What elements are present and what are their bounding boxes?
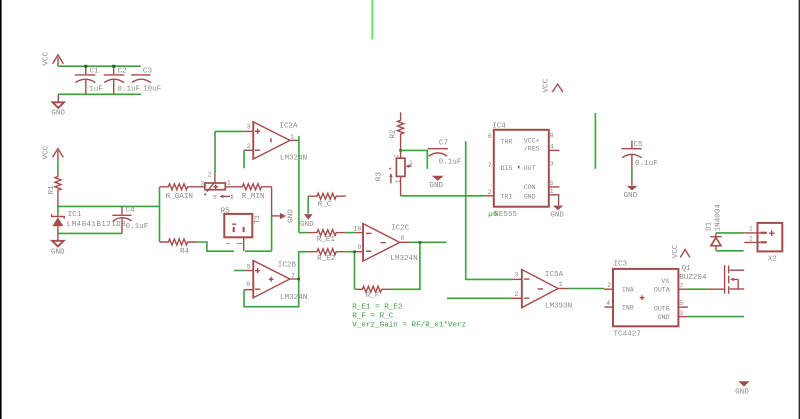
svg-text:TC4427: TC4427 <box>614 331 641 339</box>
svg-text:GND: GND <box>288 209 296 223</box>
driver IC3 TC4427 <box>604 260 688 338</box>
potentiometer R_MIN trimmer <box>200 171 232 200</box>
svg-text:1: 1 <box>290 134 294 141</box>
svg-text:2: 2 <box>514 291 518 298</box>
svg-text:Q1: Q1 <box>682 265 692 273</box>
junction dot C1 <box>84 65 87 68</box>
ground GND under R_C <box>300 214 314 229</box>
svg-text:8: 8 <box>550 133 554 140</box>
svg-text:2: 2 <box>607 282 611 289</box>
svg-text:1: 1 <box>395 179 402 183</box>
svg-text:R_F = R_C: R_F = R_C <box>352 312 393 320</box>
op-amp IC2A <box>247 122 307 163</box>
junction dot IC2B output <box>298 278 301 281</box>
svg-text:R_E2: R_E2 <box>317 255 336 263</box>
svg-text:GND: GND <box>524 194 536 201</box>
svg-text:T1: T1 <box>254 214 262 224</box>
resistor R_E2 <box>308 249 363 263</box>
svg-text:3: 3 <box>200 180 204 187</box>
wire IC2A minus stub <box>244 150 253 168</box>
svg-text:INA: INA <box>622 287 634 294</box>
ground GND 555 pin1 <box>550 195 564 220</box>
wire VCC rail top <box>58 65 141 67</box>
svg-text:LM324N: LM324N <box>280 154 307 162</box>
svg-text:IC5A: IC5A <box>545 271 564 279</box>
VCC supply symbol top-left <box>43 51 64 66</box>
wire R_MIN down <box>271 187 273 216</box>
svg-text:C7: C7 <box>439 139 448 147</box>
resistor R_E1 <box>299 230 363 244</box>
svg-text:VCC: VCC <box>543 78 551 92</box>
frame right border <box>798 0 800 419</box>
svg-text:C3: C3 <box>143 68 153 76</box>
svg-text:7: 7 <box>679 283 683 290</box>
svg-text:GND: GND <box>624 192 638 200</box>
svg-text:LM4041B12IDB: LM4041B12IDB <box>67 221 127 229</box>
svg-text:9: 9 <box>358 244 362 251</box>
svg-text:C1: C1 <box>90 68 100 76</box>
wire reference node horizontal <box>58 205 160 207</box>
diode D1 1N4004 <box>706 204 723 251</box>
VCC supply symbol reference branch <box>43 145 64 160</box>
ground GND under C7 <box>429 176 443 190</box>
svg-text:IC1: IC1 <box>68 211 82 219</box>
svg-text:1: 1 <box>550 188 554 195</box>
resistor R4 <box>160 239 197 256</box>
svg-text:VCC+: VCC+ <box>524 137 540 144</box>
junction dot R_F top <box>419 241 422 244</box>
svg-text:R_GAIN: R_GAIN <box>166 193 193 201</box>
ground GND under C5 <box>624 186 638 200</box>
wire highlighted vertical top <box>371 0 373 39</box>
svg-text:6: 6 <box>488 133 492 140</box>
sensor box R5 <box>221 207 262 244</box>
svg-text:DIS: DIS <box>501 165 513 172</box>
ground GND bottom right <box>735 381 750 396</box>
svg-text:INB: INB <box>622 304 634 311</box>
svg-text:2: 2 <box>749 235 753 242</box>
svg-text:LM393N: LM393N <box>545 303 572 311</box>
svg-text:GND: GND <box>429 182 443 190</box>
ground GND reference <box>51 233 65 256</box>
svg-text:IC2C: IC2C <box>391 224 410 232</box>
svg-text:LM324N: LM324N <box>280 294 307 302</box>
svg-text:IC2B: IC2B <box>278 261 297 269</box>
svg-text:R_MIN: R_MIN <box>242 193 265 201</box>
svg-text:/RES: /RES <box>524 146 540 153</box>
potentiometer R3 trimmer <box>376 150 413 195</box>
svg-text:3: 3 <box>679 310 683 317</box>
svg-text:C2: C2 <box>118 68 128 76</box>
svg-text:IC3: IC3 <box>614 260 628 268</box>
svg-text:5: 5 <box>679 300 683 307</box>
svg-text:6: 6 <box>246 281 250 288</box>
transistor Q1 BUZ204 mosfet <box>679 265 744 294</box>
wire ground rail top <box>58 93 141 95</box>
wire IC2B output <box>290 278 299 280</box>
resistor R_MIN <box>225 184 271 201</box>
svg-text:R_C: R_C <box>318 201 332 209</box>
wire below diode <box>716 250 744 252</box>
svg-text:1: 1 <box>227 180 231 187</box>
frame left border <box>0 0 2 419</box>
connector X2 <box>744 223 782 263</box>
svg-text:OUTA: OUTA <box>654 287 670 294</box>
capacitor C2 <box>104 66 141 94</box>
svg-text:R4: R4 <box>180 248 190 256</box>
svg-text:0.1uF: 0.1uF <box>635 160 658 168</box>
wire stub right of R2 <box>401 150 428 169</box>
svg-text:IC4: IC4 <box>492 122 506 130</box>
svg-text:GND: GND <box>550 211 564 219</box>
wire into zener <box>57 206 59 215</box>
svg-text:GND: GND <box>300 221 314 229</box>
svg-text:D1: D1 <box>706 221 714 231</box>
wire IC2B minus feedback loop <box>244 252 308 307</box>
svg-text:2: 2 <box>247 143 251 150</box>
wire driver gate output <box>688 288 707 290</box>
svg-text:X2: X2 <box>768 255 778 263</box>
wire comparator minus input <box>447 297 512 299</box>
wire R_C to ground <box>307 196 309 214</box>
svg-text:C4: C4 <box>126 206 136 214</box>
svg-text:R_E1: R_E1 <box>317 236 336 244</box>
comparator IC5A <box>512 269 572 310</box>
svg-text:7: 7 <box>488 162 492 169</box>
svg-text:1: 1 <box>749 226 753 233</box>
svg-text:4: 4 <box>550 143 554 150</box>
capacitor C4 <box>112 206 148 233</box>
wire stub vertical right of 555 <box>594 113 596 169</box>
svg-text:GND: GND <box>735 389 749 397</box>
svg-text:3: 3 <box>550 161 554 168</box>
svg-text:C5: C5 <box>633 141 643 149</box>
svg-text:OUT: OUT <box>524 165 536 172</box>
svg-text:4: 4 <box>606 300 610 307</box>
capacitor C1 <box>75 66 103 94</box>
svg-text:5: 5 <box>550 180 554 187</box>
svg-text:CON: CON <box>524 184 536 191</box>
wire diode to connector <box>716 232 744 234</box>
svg-text:3: 3 <box>247 124 251 131</box>
VCC supply symbol near Q1 <box>672 244 690 258</box>
svg-text:8: 8 <box>400 235 404 242</box>
resistor R2 <box>390 112 404 150</box>
svg-text:1: 1 <box>559 281 563 288</box>
svg-text:LM324N: LM324N <box>390 255 417 263</box>
svg-text:V_erz_Gain = RF/R_e1*Verz: V_erz_Gain = RF/R_e1*Verz <box>352 321 466 329</box>
svg-text:2: 2 <box>409 160 413 167</box>
capacitor C5 <box>621 141 658 186</box>
svg-text:BUZ204: BUZ204 <box>679 274 707 282</box>
svg-text:1N4004: 1N4004 <box>715 204 723 232</box>
svg-text:2: 2 <box>208 171 212 178</box>
svg-text:10uF: 10uF <box>143 86 162 94</box>
wire R4 to sensor node <box>197 242 234 251</box>
svg-text:OUTB: OUTB <box>654 306 670 313</box>
svg-text:VS: VS <box>661 278 669 285</box>
svg-text:IC2A: IC2A <box>279 123 298 131</box>
junction dot C2 <box>112 65 115 68</box>
wire vertical divider branch <box>159 187 161 242</box>
op-amp IC2B <box>246 260 307 302</box>
wire IC2A output down <box>290 136 299 233</box>
wire sensor stub <box>243 237 245 251</box>
capacitor C7 control <box>428 139 462 166</box>
zener diode IC1 LM4041 <box>52 211 127 233</box>
wire long vertical to comparator <box>466 141 512 279</box>
VCC supply symbol above 555 <box>543 78 563 92</box>
svg-text:0.1uF: 0.1uF <box>439 159 462 167</box>
svg-text:R_F: R_F <box>366 292 380 300</box>
resistor R1 <box>48 174 61 207</box>
wire IC2B plus stub <box>234 270 253 272</box>
svg-text:GND: GND <box>51 109 65 117</box>
svg-text:1uF: 1uF <box>89 86 103 94</box>
svg-text:s: s <box>213 194 217 201</box>
svg-text:GND: GND <box>658 314 670 321</box>
wire driver gnd pin <box>688 316 744 318</box>
timer IC4 NE555 <box>488 122 560 219</box>
svg-text:NE555: NE555 <box>494 211 517 219</box>
svg-text:3: 3 <box>514 272 518 279</box>
svg-text:0.1uF: 0.1uF <box>126 223 149 231</box>
capacitor C3 <box>131 68 161 94</box>
svg-text:GND: GND <box>51 249 65 257</box>
wire IC2C output <box>400 241 447 243</box>
svg-text:THR: THR <box>501 139 513 146</box>
wire zener bottom rail <box>58 232 122 234</box>
svg-text:R1: R1 <box>48 185 56 195</box>
svg-text:2: 2 <box>488 189 492 196</box>
wire VCC to R1 <box>57 160 59 173</box>
resistor R_GAIN <box>160 184 205 201</box>
svg-text:5: 5 <box>247 264 251 271</box>
ground GND top-left <box>51 94 65 117</box>
svg-text:10: 10 <box>353 226 361 233</box>
wire op-amp IC2A plus input <box>215 130 244 132</box>
wire sensor to R_MIN branch <box>245 250 272 252</box>
resistor R_F feedback <box>355 242 420 300</box>
svg-text:VCC: VCC <box>43 145 51 159</box>
wire comparator output to driver <box>558 288 604 290</box>
junction dot R2 R3 <box>399 149 402 152</box>
wire R3 to 555 TRI <box>401 195 485 197</box>
svg-text:R_E1 = R_E2: R_E1 = R_E2 <box>352 303 403 311</box>
svg-text:VCC: VCC <box>43 51 51 65</box>
junction dot R_E2 node <box>353 251 356 254</box>
svg-text:R3: R3 <box>376 172 384 182</box>
op-amp IC2C <box>353 224 417 263</box>
resistor R_C <box>308 193 346 209</box>
svg-text:TRI: TRI <box>501 194 513 201</box>
svg-text:R5: R5 <box>221 207 231 215</box>
ground GND sideways <box>272 209 296 223</box>
annotation text equations <box>352 303 466 329</box>
svg-text:R2: R2 <box>390 129 398 139</box>
svg-text:VCC: VCC <box>672 244 680 258</box>
svg-text:0.1uF: 0.1uF <box>117 86 140 94</box>
